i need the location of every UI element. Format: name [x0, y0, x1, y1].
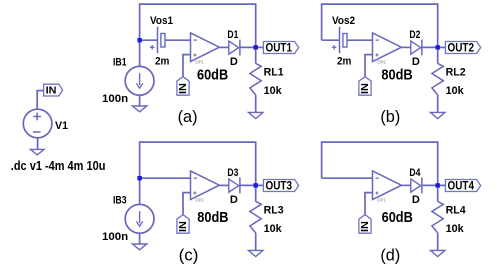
- diode D4: [411, 178, 422, 194]
- svg-text:80dB: 80dB: [381, 68, 412, 84]
- op-amp OP2 (c): [191, 171, 220, 200]
- wire RL1 to ground: [255, 95, 257, 113]
- node IN flag (b): [359, 77, 371, 96]
- svg-text:Vos2: Vos2: [332, 15, 355, 27]
- svg-text:2m: 2m: [155, 55, 169, 67]
- wire top feedback (b): [322, 3, 438, 5]
- current source IB3: [125, 204, 154, 233]
- wire IB1 to ground: [139, 95, 141, 106]
- wire left vertical (c): [139, 141, 141, 204]
- resistor RL1: [250, 63, 261, 95]
- svg-text:D2: D2: [409, 29, 420, 41]
- wire to op-amp inverting input (d): [322, 177, 373, 179]
- svg-text:RL2: RL2: [446, 67, 466, 79]
- svg-text:OP1: OP1: [377, 197, 386, 202]
- svg-text:OUT3: OUT3: [266, 179, 293, 193]
- wire top feedback (d): [322, 141, 438, 143]
- node OUT1 flag: [263, 41, 298, 55]
- svg-text:60dB: 60dB: [382, 210, 413, 226]
- wire battery to op-amp (b): [347, 39, 373, 41]
- svg-text:RL1: RL1: [264, 67, 284, 79]
- wire left vertical (b): [321, 3, 323, 40]
- node junction at IB1: [137, 38, 141, 42]
- wire diode to output node (c): [240, 184, 264, 186]
- wire right vertical (a): [255, 3, 257, 63]
- wire IN flag to corner: [37, 90, 43, 92]
- wire IB3 to ground: [139, 233, 141, 244]
- wire RL4 to ground: [437, 233, 439, 251]
- wire op-amp output to diode D1: [219, 46, 228, 48]
- svg-text:IB3: IB3: [113, 195, 127, 207]
- node junction at IB3: [137, 176, 141, 180]
- svg-text:100n: 100n: [102, 93, 128, 105]
- svg-text:Vos1: Vos1: [150, 15, 173, 27]
- node OUT3 flag: [263, 179, 298, 193]
- svg-text:D4: D4: [409, 167, 421, 179]
- op-amp OP2 (b): [373, 33, 402, 62]
- wire top feedback (c): [140, 141, 256, 143]
- svg-text:D: D: [412, 56, 420, 68]
- battery offset source Vos2: [332, 27, 347, 53]
- resistor RL2: [432, 63, 443, 95]
- svg-text:IN: IN: [178, 221, 189, 232]
- ground under RL3: [249, 250, 263, 256]
- node junction OUT4: [436, 183, 440, 187]
- wire diode to output node (d): [422, 184, 446, 186]
- svg-text:OP2: OP2: [377, 59, 386, 64]
- wire RL3 to ground: [255, 233, 257, 251]
- svg-text:(b): (b): [380, 108, 400, 126]
- svg-text:OP2: OP2: [195, 197, 204, 202]
- svg-text:D: D: [230, 56, 238, 68]
- wire to op-amp inverting input (c): [140, 177, 191, 179]
- op-amp OP1 (a): [191, 33, 220, 62]
- svg-text:10k: 10k: [264, 223, 283, 235]
- wire diode to output node (b): [422, 46, 446, 48]
- svg-text:.dc v1 -4m 4m 10u: .dc v1 -4m 4m 10u: [11, 158, 106, 173]
- wire battery to op-amp (a): [165, 39, 191, 41]
- svg-text:V1: V1: [55, 120, 68, 132]
- wire op-amp output to diode D3: [219, 184, 228, 186]
- svg-text:D3: D3: [227, 167, 238, 179]
- svg-text:(a): (a): [178, 108, 198, 126]
- current source IB1: [125, 66, 154, 95]
- wire op-amp noninverting input down (a): [183, 55, 191, 77]
- svg-text:OUT1: OUT1: [266, 41, 293, 55]
- node junction OUT1: [254, 45, 258, 49]
- ground under RL2: [431, 112, 445, 118]
- wire right vertical (c): [255, 141, 257, 201]
- svg-text:OP1: OP1: [195, 59, 204, 64]
- wire left vertical (d): [321, 141, 323, 178]
- svg-text:(c): (c): [179, 246, 199, 264]
- node IN flag (d): [359, 215, 371, 234]
- wire op-amp noninverting input down (b): [365, 55, 373, 77]
- svg-text:10k: 10k: [264, 85, 283, 97]
- wire corner down to V1: [36, 90, 38, 109]
- svg-text:10k: 10k: [446, 223, 465, 235]
- resistor RL4: [432, 201, 443, 233]
- wire top feedback (a): [140, 3, 256, 5]
- svg-text:IN: IN: [360, 83, 371, 94]
- battery offset source Vos1: [150, 27, 165, 53]
- resistor RL3: [250, 201, 261, 233]
- wire V1 to ground: [37, 138, 39, 150]
- diode D3: [229, 178, 240, 194]
- svg-text:IN: IN: [360, 221, 371, 232]
- wire left vertical (a): [139, 3, 141, 66]
- wire op-amp output to diode D2: [401, 46, 410, 48]
- node IN flag (c): [177, 215, 189, 234]
- wire op-amp noninverting input down (c): [183, 193, 191, 215]
- svg-text:RL4: RL4: [446, 205, 467, 217]
- wire right vertical (b): [437, 3, 439, 63]
- svg-text:2m: 2m: [337, 55, 351, 67]
- wire right vertical (d): [437, 141, 439, 201]
- wire diode to output node (a): [240, 46, 264, 48]
- svg-text:100n: 100n: [102, 231, 128, 243]
- ground under IB3: [132, 244, 146, 250]
- svg-text:D: D: [412, 194, 420, 206]
- wire to battery Vos1: [140, 39, 158, 41]
- node junction OUT3: [254, 183, 258, 187]
- op-amp OP1 (d): [373, 171, 402, 200]
- ground under RL1: [249, 112, 263, 118]
- diode D2: [411, 40, 422, 56]
- svg-text:D1: D1: [227, 29, 238, 41]
- svg-text:D: D: [230, 194, 238, 206]
- svg-text:80dB: 80dB: [197, 210, 228, 226]
- voltage source V1: [23, 109, 52, 138]
- svg-text:IN: IN: [46, 85, 57, 96]
- wire to battery Vos2: [322, 39, 340, 41]
- wire RL2 to ground: [437, 95, 439, 113]
- svg-text:IN: IN: [178, 83, 189, 94]
- svg-text:OUT2: OUT2: [448, 41, 475, 55]
- wire op-amp noninverting input down (d): [365, 193, 373, 215]
- diode D1: [229, 40, 240, 56]
- svg-text:RL3: RL3: [264, 205, 284, 217]
- svg-text:OUT4: OUT4: [448, 179, 475, 193]
- ground under IB1: [132, 106, 146, 112]
- svg-text:(d): (d): [380, 246, 400, 264]
- node OUT4 flag: [445, 179, 480, 193]
- ground at V1: [31, 149, 45, 155]
- node OUT2 flag: [445, 41, 480, 55]
- node junction OUT2: [436, 45, 440, 49]
- node IN flag at V1: [44, 84, 63, 96]
- svg-text:10k: 10k: [446, 85, 465, 97]
- svg-text:60dB: 60dB: [197, 68, 228, 84]
- svg-text:IB1: IB1: [113, 57, 127, 69]
- wire op-amp output to diode D4: [401, 184, 410, 186]
- node IN flag (a): [177, 77, 189, 96]
- ground under RL4: [431, 250, 445, 256]
